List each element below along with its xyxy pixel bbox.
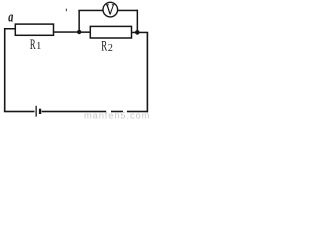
wire gap over watermark: [106, 110, 111, 113]
svg-text:1: 1: [36, 41, 41, 52]
wire left vertical rail: [4, 28, 6, 112]
wire gap over watermark: [123, 110, 127, 113]
voltmeter V1 letter V: [106, 4, 115, 14]
wire junction to R2: [79, 31, 91, 33]
junction dot left: [77, 30, 81, 34]
wire junction to right rail: [137, 32, 148, 34]
junction dot right: [135, 30, 140, 35]
resistor R2: [90, 26, 131, 38]
wire right vertical rail: [147, 32, 149, 112]
svg-text:R: R: [101, 39, 107, 55]
wire top-left horizontal from left rail to R1: [4, 28, 16, 30]
wire voltmeter branch left vertical: [78, 10, 80, 32]
svg-text:2: 2: [108, 43, 113, 54]
svg-text:a: a: [8, 9, 14, 25]
stray tick mark: [66, 9, 67, 12]
battery B1 short thick plate: [39, 109, 41, 114]
voltmeter V1 body: [103, 2, 118, 17]
wire R1 to junction: [53, 31, 79, 33]
wire voltmeter branch top right: [118, 10, 138, 12]
battery B1 long plate: [36, 106, 37, 117]
wire bottom rail left of battery: [4, 111, 35, 113]
svg-text:manfen5.com: manfen5.com: [84, 111, 150, 121]
wire voltmeter branch top left: [78, 10, 103, 12]
wire bottom rail right of battery: [42, 111, 148, 113]
wire voltmeter branch right vertical: [137, 10, 139, 33]
svg-text:R: R: [30, 37, 36, 53]
resistor R1: [15, 24, 53, 35]
wire R2 to junction right: [132, 32, 138, 34]
